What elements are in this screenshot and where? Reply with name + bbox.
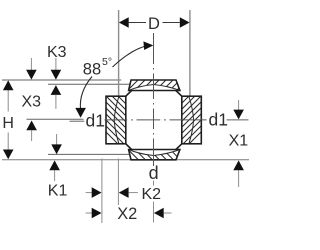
wire extension line v1 (x=101.9)	[101, 159, 103, 224]
svg-text:K2: K2	[142, 186, 162, 203]
wire X3 bottom tail	[31, 130, 33, 141]
wire D dimension line	[129, 22, 146, 24]
arrow K1 bottom (points up at bottom line)	[49, 160, 60, 170]
arrow H top	[3, 80, 14, 90]
wire extension line v2 (x=118.4)	[117, 159, 119, 206]
arrow K1 top (points down at line D)	[51, 144, 62, 154]
svg-text:X1: X1	[229, 132, 249, 149]
wire bottom reference line (full width)	[2, 159, 249, 161]
wire X2 right tail	[164, 212, 172, 214]
bottom socket bore dome	[129, 150, 180, 156]
svg-text:X2: X2	[117, 205, 137, 223]
arrow D right	[180, 17, 190, 28]
arrow X2 right (points left at centerline ext)	[154, 208, 164, 219]
arrow X2 left (points right at v1)	[92, 208, 102, 219]
svg-text:X3: X3	[22, 94, 42, 111]
svg-text:K1: K1	[48, 183, 68, 200]
wire K3 top tail	[55, 58, 57, 72]
arrow D left	[119, 17, 129, 28]
wire K2 right tail	[129, 192, 138, 194]
body chamfer bottom-left	[126, 144, 132, 150]
node horizontal axis centerline (dash-dot)	[105, 119, 207, 121]
wire X3 top tail	[30, 58, 32, 72]
wire reference line C (axis extension, left)	[27, 118, 84, 120]
svg-text:5°: 5°	[102, 56, 112, 68]
wire D dimension left extension line	[118, 10, 120, 97]
svg-text:H: H	[2, 115, 14, 132]
right socket outline	[177, 78, 207, 156]
bottom socket outline	[119, 147, 182, 161]
svg-text:d1: d1	[86, 111, 105, 131]
right socket bore chevron	[189, 97, 194, 144]
wire H dimension line	[7, 81, 9, 112]
wire reference line A (top socket face plane, to left margin)	[2, 79, 121, 81]
arrow K2 right (points left at v2)	[119, 187, 129, 198]
hatch top socket	[119, 78, 189, 92]
wire X2 left tail	[86, 212, 93, 214]
wire axis stub right	[227, 119, 249, 121]
arrow leader head at vertical axis	[143, 41, 153, 50]
wire K3 bottom tail	[55, 95, 57, 109]
wire leader arc to horizontal axis	[80, 77, 92, 110]
arrow K3 bottom (points up at line B)	[51, 85, 62, 95]
right socket box stroke	[182, 96, 202, 144]
hatch right socket	[177, 78, 207, 156]
wire X1 top tail	[238, 100, 240, 111]
arrow K3 top (points down at line A)	[51, 70, 62, 80]
top socket U1 outline	[119, 78, 189, 92]
top socket box stroke	[129, 80, 180, 91]
hatch left socket	[100, 78, 130, 156]
svg-text:K3: K3	[47, 44, 67, 61]
arrow H bottom	[3, 150, 14, 160]
left socket box stroke	[106, 96, 126, 144]
wire K2 left tail	[86, 192, 93, 194]
svg-text:d1: d1	[209, 109, 228, 129]
node vertical centerline (dash-dot)	[153, 33, 155, 166]
wire D dimension right extension line	[189, 10, 191, 107]
top socket bore dome	[129, 85, 180, 91]
arrow X1 top (points down at axis stub)	[233, 110, 244, 120]
bottom socket box stroke	[129, 150, 180, 160]
arrow leader head at horizontal axis	[75, 108, 86, 118]
wire K1 bottom tail	[54, 170, 56, 181]
body chamfer top-left	[126, 91, 132, 97]
arrow X3 top (points down at line A)	[26, 70, 37, 80]
wire leader arc to vertical axis	[113, 46, 149, 67]
svg-text:D: D	[148, 15, 160, 33]
wire reference line B (socket stop plane)	[48, 83, 132, 85]
arrow X1 bottom (points up at bottom line)	[233, 160, 244, 170]
left socket bore chevron	[114, 97, 119, 144]
body chamfer top-right	[176, 91, 182, 97]
svg-text:88: 88	[83, 60, 101, 78]
wire centerline extension below fitting	[153, 181, 155, 186]
body chamfer bottom-right	[176, 144, 182, 150]
arrow K2 left (points right at v1)	[92, 187, 102, 198]
left socket outline	[100, 78, 130, 156]
hatch bottom socket	[119, 147, 182, 161]
wire X1 bottom tail	[238, 170, 240, 187]
wire reference line D (bottom stop plane)	[48, 153, 131, 155]
arrow X3 bottom (points up at axis line C)	[26, 121, 37, 131]
wire K1 top tail	[56, 134, 58, 145]
